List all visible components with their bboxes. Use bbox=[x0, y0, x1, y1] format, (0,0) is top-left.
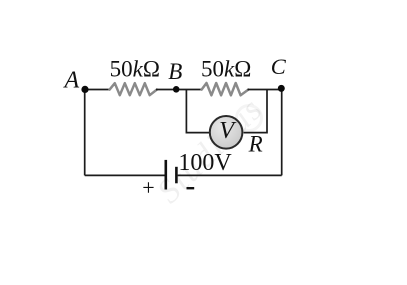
wire left vertical from A down bbox=[84, 89, 86, 175]
svg-text:A: A bbox=[63, 68, 80, 94]
watermark ring bbox=[237, 106, 262, 131]
voltmeter V (meter body) bbox=[210, 116, 243, 149]
wire bottom left to battery bbox=[85, 174, 166, 176]
svg-text:R: R bbox=[248, 132, 263, 157]
label - (negative terminal) bbox=[187, 187, 195, 189]
battery cell 100V: long positive plate bbox=[165, 160, 168, 190]
node B (junction dot) bbox=[173, 86, 180, 93]
wire bottom from battery to right corner bbox=[178, 174, 282, 176]
wire voltmeter branch right: from meter right and up to top wire bbox=[244, 89, 267, 132]
node C (junction dot) bbox=[278, 85, 285, 92]
node A (junction dot) bbox=[81, 86, 88, 93]
battery cell 100V: short negative plate bbox=[175, 167, 178, 184]
svg-text:+: + bbox=[142, 175, 154, 200]
wire top: A to resistor R1 bbox=[85, 89, 111, 91]
resistor R1 (50k ohm, between A and B) bbox=[110, 83, 157, 95]
wire top: R2 to C bbox=[248, 89, 282, 91]
resistor R2 (50k ohm, between B and C) bbox=[202, 83, 249, 95]
svg-text:50kΩ: 50kΩ bbox=[201, 57, 251, 82]
wire voltmeter branch left: from top wire down and right to meter bbox=[186, 89, 209, 132]
watermark bbox=[150, 90, 270, 210]
wire top: R1 to B to resistor R2 bbox=[156, 89, 203, 91]
svg-text:B: B bbox=[168, 59, 182, 84]
svg-text:50kΩ: 50kΩ bbox=[110, 57, 160, 82]
wire right vertical from C down bbox=[281, 89, 283, 175]
svg-text:C: C bbox=[271, 54, 287, 79]
svg-text:100V: 100V bbox=[178, 150, 232, 176]
